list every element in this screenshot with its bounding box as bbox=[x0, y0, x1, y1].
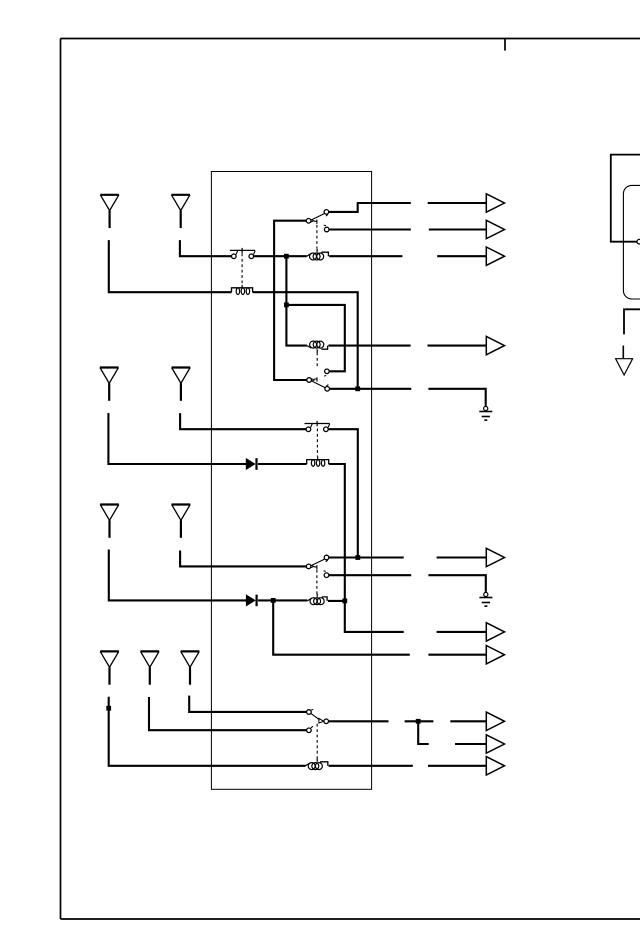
wire coil K1 right to relay S3 row bbox=[253, 292, 358, 389]
amplifier A10 bbox=[486, 757, 504, 775]
relay coil K5 bbox=[307, 457, 329, 467]
junction N5 bbox=[342, 599, 347, 604]
wire to ground G1 bbox=[428, 389, 485, 406]
switch unit box bbox=[211, 172, 371, 790]
wire amp A8 input bbox=[450, 720, 486, 722]
wire ANT5 to diode D2 bbox=[109, 550, 247, 601]
wire S2 lower throw bbox=[329, 228, 411, 230]
wire coil K7 junction to amp A6 bbox=[328, 601, 404, 632]
amplifier A6 bbox=[486, 623, 504, 641]
switch S3 bbox=[307, 369, 330, 391]
wire ANT3 to diode D1 bbox=[108, 413, 246, 464]
wire amp A9 input bbox=[455, 743, 486, 745]
wire S7 upper throw to right bbox=[329, 556, 404, 558]
antenna ANT6 bbox=[172, 505, 191, 538]
amplifier A9 bbox=[486, 735, 504, 753]
wire ANT2 to switch S1 bbox=[180, 240, 232, 256]
switch S2 bbox=[306, 210, 329, 232]
wire S7 lower throw to right bbox=[329, 574, 411, 576]
junction N7 bbox=[416, 719, 421, 724]
switch S8 bbox=[307, 709, 329, 732]
switch S5 contacts bbox=[305, 421, 330, 432]
wire S3 lower throw to right bbox=[330, 388, 412, 390]
relay actuation dashed link S7-K7 bbox=[316, 570, 318, 595]
relay coil K3 bbox=[307, 341, 328, 353]
arrow stub bbox=[622, 346, 624, 359]
amplifier A1 bbox=[486, 194, 504, 212]
antenna ANT7 bbox=[100, 651, 119, 684]
relay actuation dashed link S3-K3 bbox=[316, 353, 318, 367]
wire ANT8 to switch S8 lower bbox=[149, 697, 307, 730]
wire ANT7 to coil K8 bbox=[109, 697, 306, 766]
antenna ANT5 bbox=[100, 505, 119, 538]
antenna ANT2 bbox=[171, 195, 190, 228]
junction N6 bbox=[271, 598, 276, 603]
wire coil K2 to right bbox=[329, 255, 402, 257]
junction N1 bbox=[284, 254, 289, 259]
amplifier A3 bbox=[486, 247, 504, 265]
wire ANT6 to switch S7 bbox=[180, 551, 306, 567]
wire diode D2 to coil K7 bbox=[258, 599, 307, 601]
amplifier A4 bbox=[486, 336, 504, 354]
wire coil K8 to right bbox=[329, 765, 413, 767]
wire S2 upper throw to amp A1 bbox=[329, 203, 411, 212]
junction N3 bbox=[355, 386, 360, 391]
switch S7 bbox=[306, 555, 329, 577]
junction N8 bbox=[106, 706, 111, 711]
amplifier A5 bbox=[486, 548, 504, 566]
wire amp A6 input bbox=[437, 631, 487, 633]
rounded outline inside J1 bbox=[623, 185, 640, 299]
wire tee drop bbox=[418, 721, 429, 744]
antenna ANT3 bbox=[100, 368, 119, 401]
wire switch S1 to coil K2 bbox=[254, 255, 307, 257]
antenna ANT4 bbox=[172, 368, 191, 401]
diode D2 bbox=[246, 595, 256, 607]
antenna ANT8 bbox=[141, 651, 160, 684]
wire coil K5 right down bbox=[329, 464, 345, 601]
amplifier A8 bbox=[486, 712, 504, 730]
relay actuation dashed link S1-K1 bbox=[241, 254, 243, 286]
wire amp A1 input bbox=[428, 202, 487, 204]
antenna ANT1 bbox=[100, 195, 119, 228]
wire amp A7 input bbox=[428, 654, 486, 656]
relay actuation dashed link S2-K2 bbox=[316, 225, 318, 249]
down arrow head bbox=[616, 359, 633, 375]
relay coil K8 bbox=[306, 758, 328, 769]
relay actuation dashed link S5-K5 bbox=[316, 429, 318, 457]
relay coil K7 bbox=[307, 594, 327, 605]
wire diode D1 to coil K5 bbox=[258, 463, 307, 465]
junction N2 bbox=[284, 303, 289, 308]
switch S1 contacts bbox=[230, 248, 255, 259]
antenna ANT9 bbox=[181, 651, 200, 684]
wire S8 output to right bbox=[329, 720, 389, 722]
bracket corner below J1 bbox=[624, 309, 640, 334]
diode D1 bbox=[246, 458, 256, 470]
wire node N1 vertical bbox=[286, 256, 307, 345]
wire ANT4 to switch S5 bbox=[180, 413, 306, 429]
relay coil K1 bbox=[232, 285, 253, 295]
wire amp A4 input bbox=[428, 345, 487, 347]
relay actuation dashed link S8-K8 bbox=[316, 724, 318, 759]
ground G2 bbox=[479, 592, 492, 606]
pin circle on J1 bbox=[637, 239, 640, 244]
border tick mark bbox=[504, 39, 506, 51]
wire amp A10 input bbox=[428, 765, 486, 767]
relay coil K2 bbox=[307, 249, 329, 260]
amplifier A2 bbox=[486, 220, 504, 238]
wire amp A5 input bbox=[437, 556, 487, 558]
wire to ground G2 bbox=[428, 575, 485, 592]
amplifier A7 bbox=[486, 646, 504, 664]
wire node N6 branch to amp A7 bbox=[273, 600, 410, 654]
connector box J1 (partial, right edge) bbox=[611, 155, 640, 242]
junction N4 bbox=[355, 555, 360, 560]
wire loop N2 to S3 upper throw bbox=[286, 305, 344, 371]
wire amp A3 input bbox=[437, 255, 486, 257]
wire S5 right contact down bbox=[328, 429, 358, 557]
wire ANT9 to switch S8 upper bbox=[189, 696, 306, 712]
wire ANT1 to coil K1 bbox=[109, 240, 232, 292]
ground G1 bbox=[479, 406, 492, 420]
wire bus to S2/S3 commons bbox=[274, 221, 307, 380]
wire coil K3 to right bbox=[328, 345, 410, 347]
wire amp A2 input bbox=[429, 228, 487, 230]
wire net segment with tee bbox=[405, 720, 434, 722]
